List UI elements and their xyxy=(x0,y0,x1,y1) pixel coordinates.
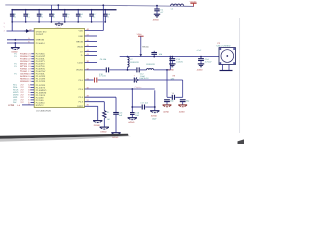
capacitor C12 series on VBUS row xyxy=(134,67,147,78)
ground crystal left xyxy=(163,105,172,114)
ground analog below C1 xyxy=(153,14,160,21)
svg-text:LCDB: LCDB xyxy=(8,104,15,107)
svg-text:12M: 12M xyxy=(171,77,175,80)
svg-text:VD50: VD50 xyxy=(137,33,142,36)
ground B3 xyxy=(111,133,120,139)
svg-text:C5: C5 xyxy=(53,13,55,16)
wire row y101.7 xyxy=(85,101,105,103)
capacitor C17 bypass 0.1uF xyxy=(89,9,96,23)
wire top supply net xyxy=(5,5,194,7)
capacitor load right xyxy=(180,100,189,105)
wire U1 lower-left pin row 8 xyxy=(13,101,34,104)
wire crystal branch down xyxy=(14,43,16,47)
ground below C14 xyxy=(197,64,204,72)
svg-text:0.1/16V: 0.1/16V xyxy=(176,60,183,63)
svg-text:C16: C16 xyxy=(79,13,82,16)
wire crystal vertical v2 xyxy=(182,80,184,97)
svg-text:104: 104 xyxy=(159,53,163,56)
svg-text:V: V xyxy=(4,26,6,29)
ground B4 xyxy=(128,118,137,124)
wire U1 right stub y46.5 xyxy=(85,44,98,47)
wire U1 right stub y36 xyxy=(85,33,98,36)
svg-text:AGND: AGND xyxy=(151,114,158,117)
svg-text:P2: P2 xyxy=(218,42,221,45)
wire VBUS row y69.9 mid xyxy=(109,69,136,71)
capacitor C4 bypass 0.1uF xyxy=(37,9,43,23)
wire U1 pin1 row xyxy=(7,30,35,32)
svg-text:C6 104: C6 104 xyxy=(100,58,107,61)
wire bypass rail xyxy=(12,9,116,11)
svg-text:ChipVcc: ChipVcc xyxy=(135,86,142,89)
power flag VCC top right xyxy=(190,0,198,6)
wire branch B4 vertical xyxy=(131,89,133,112)
wire U1 right stub y62.5 xyxy=(85,60,98,63)
svg-text:C2CK: C2CK xyxy=(77,61,83,64)
capacitor C13 on B3 xyxy=(113,111,123,117)
wire vertical x51 rail tap xyxy=(50,5,52,10)
node junction x103 top net xyxy=(102,4,104,6)
wire U1 left pin row 11 xyxy=(20,78,34,81)
svg-text:P1: P1 xyxy=(14,65,17,68)
power port 5V xyxy=(137,33,149,57)
svg-text:REG50: REG50 xyxy=(142,45,148,48)
svg-text:R9: R9 xyxy=(173,74,175,77)
connector P2 cell holder xyxy=(219,48,236,65)
svg-text:22p: 22p xyxy=(170,100,173,103)
svg-text:C7 104: C7 104 xyxy=(99,74,106,77)
label net left of pin1 xyxy=(4,22,6,33)
svg-text:GND: GND xyxy=(78,35,83,38)
ground B2 xyxy=(100,127,109,134)
wire after L1 xyxy=(184,5,194,7)
wire U1 left pin row 12 xyxy=(20,80,34,83)
svg-text:DGND: DGND xyxy=(94,124,101,127)
wire XTAL1 row xyxy=(7,37,34,40)
svg-text:1M: 1M xyxy=(107,118,110,121)
capacitor C8 polarized on row y80 xyxy=(134,77,182,83)
wire U1 left pin row 3 xyxy=(20,58,34,61)
svg-text:L2: L2 xyxy=(130,58,133,61)
wire U1 lower-left pin row 1 xyxy=(13,84,34,87)
node junction x172 rail xyxy=(171,56,173,58)
wire U1 right stub y51.5 xyxy=(85,49,98,52)
svg-text:AGND: AGND xyxy=(128,121,135,124)
svg-text:C3: C3 xyxy=(27,13,29,16)
wire U1 left pin row 7 xyxy=(20,68,34,71)
svg-text:P1.2/CEX: P1.2/CEX xyxy=(36,80,46,83)
wire B5 horizontal xyxy=(131,106,141,108)
ground crystal right xyxy=(178,105,187,114)
wire stub row y55.4 xyxy=(85,54,98,56)
svg-text:FERRITE: FERRITE xyxy=(146,63,155,66)
svg-text:C4: C4 xyxy=(40,13,42,16)
svg-text:0.1: 0.1 xyxy=(66,16,69,19)
inductor L2 ferrite xyxy=(127,56,140,70)
wire U1 left pin row 1 xyxy=(14,53,34,56)
svg-text:4.7: 4.7 xyxy=(160,11,164,14)
svg-text:L1: L1 xyxy=(171,8,174,11)
wire row y106.3 xyxy=(85,105,98,107)
wire U1 lower-left pin row 4 xyxy=(13,91,34,94)
wire LCD row xyxy=(8,103,34,107)
svg-text:22p: 22p xyxy=(186,100,189,103)
svg-text:C15: C15 xyxy=(66,13,69,16)
svg-text:4.7uF: 4.7uF xyxy=(197,49,203,52)
svg-text:C18: C18 xyxy=(107,13,110,16)
wire U1 right stub y41.5 xyxy=(85,39,98,42)
svg-text:AGND: AGND xyxy=(153,19,160,22)
capacitor C14 branch xyxy=(198,57,212,64)
wire U1 left pin row 2 xyxy=(14,55,34,58)
wire U1 lower-left pin row 3 xyxy=(13,89,34,92)
wire crystal vertical v1 xyxy=(166,70,168,97)
wire branch B6 vertical xyxy=(154,90,156,110)
resistor R1 1M xyxy=(103,111,111,122)
wire vertical x58 to bypass rail xyxy=(57,5,59,10)
wire U1 lower-left pin row 7 xyxy=(13,99,34,102)
svg-text:AGND: AGND xyxy=(197,68,203,71)
wire vertical x103 down to U1 stub xyxy=(102,5,104,30)
svg-text:13: 13 xyxy=(28,80,31,83)
wire vertical x170 to 5V rail xyxy=(169,56,171,70)
svg-text:4.7/10V: 4.7/10V xyxy=(205,60,212,63)
capacitor C15 bypass 0.1uF xyxy=(63,9,70,23)
svg-text:REGIN: REGIN xyxy=(76,40,83,43)
svg-text:VDD: VDD xyxy=(78,29,83,32)
capacitor C10 series on VBUS row xyxy=(99,67,109,75)
wire P2 legs to bar xyxy=(220,65,233,71)
svg-text:DVDDF: DVDDF xyxy=(36,33,44,36)
svg-text:GND2: GND2 xyxy=(77,105,84,108)
capacitor C13b branch xyxy=(169,57,183,64)
svg-text:VBUS: VBUS xyxy=(77,45,83,48)
inductor L3 ferrite series xyxy=(146,63,170,70)
ground B1 xyxy=(93,121,102,127)
node junction x157 top net xyxy=(156,5,158,7)
IC U1 C8051 body xyxy=(34,28,84,107)
svg-text:3: 3 xyxy=(4,30,5,33)
wire branch B2 vertical xyxy=(103,102,105,111)
wire U1 left pin row 8 xyxy=(20,70,34,73)
wire VBUS row y69.9 left xyxy=(85,69,106,71)
capacitor C1 4.7uF on top net xyxy=(154,6,164,14)
svg-text:1-4: 1-4 xyxy=(17,104,21,107)
wire U1 right stub y30.5 xyxy=(85,28,104,31)
node junction on VBUS row at x167 xyxy=(166,69,168,71)
svg-text:P1: P1 xyxy=(14,55,17,58)
node junction x58 top net xyxy=(57,4,59,6)
svg-text:0.1: 0.1 xyxy=(40,16,43,19)
svg-text:Y1: Y1 xyxy=(172,92,175,95)
svg-text:AGND: AGND xyxy=(163,110,169,113)
wire rail corner down to U1 pin1 xyxy=(11,10,13,31)
scan artifact bottom right corner xyxy=(238,139,245,144)
svg-text:U1 C8051F320: U1 C8051F320 xyxy=(36,109,52,112)
wire U1 left pin row 10 xyxy=(20,75,34,78)
wire branch B1 vertical xyxy=(97,106,99,120)
scan artifact right edge line xyxy=(239,18,241,133)
wire U1 left pin row 9 xyxy=(14,73,34,76)
wire branch B3 lower xyxy=(115,114,117,132)
svg-text:10uF/6.3V: 10uF/6.3V xyxy=(139,77,149,80)
capacitor C3 bypass 0.1uF xyxy=(23,9,29,23)
svg-text:D-: D- xyxy=(81,54,84,57)
ground B6 xyxy=(150,111,159,121)
svg-text:AGND: AGND xyxy=(179,110,185,113)
label U1 left pin names xyxy=(36,30,47,106)
svg-text:R1: R1 xyxy=(107,111,110,114)
wire branch B4 lower xyxy=(131,115,133,118)
svg-text:0.1: 0.1 xyxy=(13,16,16,19)
wire branch B3 vertical xyxy=(115,97,117,112)
inductor L1 series supply xyxy=(171,4,184,11)
svg-text:C1: C1 xyxy=(160,8,164,11)
svg-text:FERRITE: FERRITE xyxy=(130,61,139,64)
svg-text:0.1: 0.1 xyxy=(107,16,110,19)
node junction x201 rail xyxy=(200,56,202,58)
wire U1 lower-left pin row 5 xyxy=(13,94,34,97)
wire U1 left pin row 5 xyxy=(14,63,34,66)
capacitor C16 on B4 xyxy=(130,112,140,118)
svg-text:VCC33: VCC33 xyxy=(190,0,198,3)
port arrow into pin1 xyxy=(25,30,29,33)
label U1 right pin names xyxy=(76,29,84,108)
svg-text:SW: SW xyxy=(13,101,16,104)
svg-text:2-2: 2-2 xyxy=(21,101,25,104)
svg-text:0.1: 0.1 xyxy=(79,16,82,19)
wire row y89 xyxy=(85,86,155,90)
wire bypass bottom rail xyxy=(12,21,105,23)
svg-text:C2: C2 xyxy=(13,13,15,16)
wire branch B2 lower xyxy=(103,118,105,127)
capacitor load left xyxy=(164,100,173,105)
svg-text:CELL CR2032: CELL CR2032 xyxy=(217,45,232,48)
wire U1 left pin row 6 xyxy=(14,65,34,68)
wire row y97.2 xyxy=(85,96,117,98)
svg-text:RST/C2: RST/C2 xyxy=(36,104,44,107)
svg-text:C17: C17 xyxy=(93,13,96,16)
svg-text:P1: P1 xyxy=(14,73,17,76)
wire 5V rail xyxy=(120,56,219,58)
ground below C13b xyxy=(168,64,175,72)
ground below crystal branch xyxy=(11,48,20,54)
svg-text:C17 104: C17 104 xyxy=(141,102,149,105)
svg-text:0.1: 0.1 xyxy=(53,16,56,19)
svg-text:0.1: 0.1 xyxy=(27,16,30,19)
wire XTAL2 row xyxy=(7,40,34,43)
svg-text:AGND: AGND xyxy=(168,68,174,71)
wire U1 lower-left pin row 6 xyxy=(13,96,34,99)
capacitor C18 bypass 0.1uF xyxy=(103,9,110,23)
ground digital below bypass rail xyxy=(55,22,63,30)
svg-text:+: + xyxy=(134,74,136,77)
capacitor C5 bypass 0.1uF xyxy=(49,9,55,23)
svg-text:VBUS2: VBUS2 xyxy=(76,69,84,72)
svg-text:22pF: 22pF xyxy=(152,118,157,121)
capacitor C9 above rail xyxy=(151,51,162,58)
wire U1 lower-left pin row 2 xyxy=(13,86,34,89)
wire U1 left pin row 4 xyxy=(20,60,34,63)
capacitor C16 bypass 0.1uF xyxy=(76,9,83,23)
scan artifact bottom dark band xyxy=(0,134,129,139)
crystal Y1 bridge xyxy=(167,92,183,100)
svg-text:3: 3 xyxy=(4,22,5,25)
capacitor C2 bypass 0.1uF xyxy=(10,9,16,23)
wire D- long row y80 xyxy=(85,74,134,82)
svg-text:0.1: 0.1 xyxy=(93,16,96,19)
scan artifact bottom fade xyxy=(0,136,131,142)
svg-text:P2.6/A14: P2.6/A14 xyxy=(36,42,46,45)
capacitor C17 series B5 xyxy=(141,102,155,110)
svg-text:VREGIN: VREGIN xyxy=(36,39,45,42)
svg-text:DGND: DGND xyxy=(100,131,107,134)
